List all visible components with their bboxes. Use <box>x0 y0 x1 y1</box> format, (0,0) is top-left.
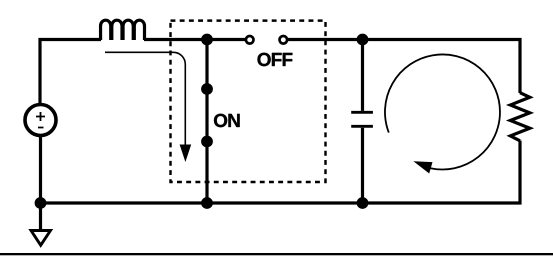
ground <box>31 203 51 245</box>
switch contact (pole, open circle) <box>246 36 254 44</box>
voltage source <box>25 105 56 136</box>
label ON <box>214 114 240 127</box>
label OFF <box>257 53 292 66</box>
wire: source bottom to ground rail <box>39 136 42 204</box>
dashed box: switch boundary <box>171 21 326 182</box>
node: ON lower contact <box>201 136 213 148</box>
wire: OFF contact to right rail via top-right corner <box>287 40 520 94</box>
node: ON upper contact <box>201 83 213 95</box>
switch contact OFF (throw, open circle) <box>280 36 288 44</box>
current arrow: ON path (thin arrow curving down) <box>105 52 191 162</box>
inductor <box>101 20 145 40</box>
node: switch top <box>201 34 213 46</box>
wire: left rail top (source to inductor) <box>40 40 101 106</box>
capacitor <box>351 40 373 204</box>
node: bottom switch <box>201 197 213 209</box>
resistor <box>510 93 530 141</box>
node: capacitor top <box>357 34 369 46</box>
wire: inductor to OFF pole contact <box>144 38 246 41</box>
current loop arrow (clockwise) <box>385 54 500 173</box>
node: bottom source <box>35 197 47 209</box>
wire: switch arm vertical (ON path) <box>205 40 208 204</box>
wire: resistor to bottom rail via bottom-right corner <box>41 141 521 204</box>
node: bottom capacitor <box>357 197 369 209</box>
baseline rule <box>0 253 553 255</box>
